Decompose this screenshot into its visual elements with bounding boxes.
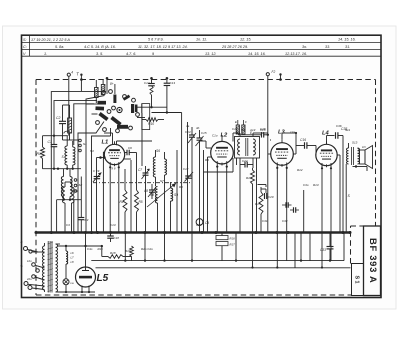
trimmer C19b	[93, 169, 102, 182]
coil S3b secondary	[70, 169, 72, 200]
svg-text:C1o: C1o	[232, 127, 238, 131]
svg-text:R18: R18	[110, 251, 116, 255]
capacitor C28	[238, 132, 269, 138]
output transformer S13	[343, 128, 360, 165]
mains plug 2	[24, 282, 45, 290]
tube V1	[104, 144, 124, 164]
svg-text:S7: S7	[160, 179, 164, 183]
trimmer C8	[144, 184, 156, 199]
svg-text:C3: C3	[85, 218, 89, 222]
labels W2 A13 C28	[241, 128, 266, 132]
wire V3 top	[270, 136, 282, 140]
wire transformer down	[343, 147, 351, 233]
switch wire down	[110, 128, 112, 136]
svg-text:C8: C8	[144, 189, 148, 193]
wire V1 osc links	[124, 153, 137, 181]
capacitor C22	[240, 159, 253, 168]
svg-text:C29: C29	[268, 195, 274, 199]
capacitor C31	[290, 207, 299, 213]
capacitor C1	[48, 136, 58, 169]
resistor R1	[37, 136, 45, 169]
svg-text:E: E	[235, 120, 237, 124]
svg-text:a: a	[21, 240, 23, 244]
svg-text:C22: C22	[242, 159, 248, 163]
wire lower line 1	[91, 259, 344, 261]
svg-text:C18: C18	[114, 236, 120, 240]
svg-text:L7: L7	[71, 256, 75, 260]
svg-text:25 28 27 26 29.: 25 28 27 26 29.	[221, 45, 248, 49]
wire V2 grid	[200, 141, 212, 148]
svg-text:R15: R15	[255, 202, 261, 206]
switch wire up	[114, 84, 116, 94]
wire coil bottoms	[67, 165, 73, 169]
svg-text:14. 15. 16.: 14. 15. 16.	[338, 38, 356, 42]
wire top caps line2	[152, 111, 182, 232]
svg-text:C28: C28	[260, 127, 266, 131]
capacitor C33	[320, 233, 334, 261]
wire T1 top	[233, 133, 268, 142]
svg-text:R12: R12	[297, 168, 303, 172]
mains plug	[21, 240, 45, 253]
resistor R10	[142, 118, 164, 126]
rotary band switch S	[96, 90, 140, 133]
svg-text:F: F	[245, 120, 247, 124]
misc labels top	[186, 124, 342, 134]
svg-text:C3: C3	[66, 223, 70, 227]
wire lower left link	[57, 199, 82, 201]
label L2	[212, 133, 228, 139]
capacitor C3 hatched	[101, 80, 105, 95]
wire corner group	[78, 96, 111, 233]
svg-text:R4: R4	[120, 200, 124, 204]
wire V3 jog	[258, 185, 267, 187]
wire R14 down	[253, 185, 267, 268]
svg-text:5 6 7 8 9.: 5 6 7 8 9.	[148, 38, 164, 42]
wire antenna A down	[68, 80, 70, 136]
wire tube V1 pins down	[110, 167, 119, 232]
ground bus junctions	[35, 231, 352, 234]
coil box	[142, 104, 150, 130]
svg-text:3. 5.: 3. 5.	[96, 52, 103, 56]
wire V3a top link	[282, 132, 297, 146]
power transformer primary	[42, 243, 44, 292]
misc labels bus	[66, 219, 288, 227]
wire V3 grid left	[268, 137, 271, 233]
svg-text:S11: S11	[345, 128, 350, 132]
svg-text:R6: R6	[179, 185, 183, 189]
wire V4 top	[327, 136, 335, 145]
resistor R2 hatched	[68, 105, 72, 140]
capacitor C6	[125, 146, 137, 155]
capacitor C18	[107, 233, 119, 243]
wire below-bus left	[101, 245, 103, 257]
svg-text:R1: R1	[37, 152, 41, 156]
wire tube V1 top right	[117, 141, 153, 145]
svg-text:5. 8a.: 5. 8a.	[55, 45, 64, 49]
wire V4 grid	[315, 146, 317, 156]
table row 3 text	[23, 52, 307, 56]
wire terminal T down	[80, 78, 83, 91]
svg-text:8 8: 8 8	[112, 167, 116, 171]
wire V3 pins	[277, 146, 296, 268]
svg-text:BF 393 A: BF 393 A	[368, 238, 379, 283]
svg-text:8+: 8+	[110, 82, 114, 86]
switch wire left 2	[92, 113, 98, 115]
svg-text:C:: C:	[23, 45, 27, 49]
tube V4	[316, 144, 337, 165]
trimmer C7	[138, 166, 150, 181]
wire switch to left corner 3	[74, 104, 94, 145]
power transformer secondary	[56, 244, 61, 292]
coil S8	[150, 187, 158, 233]
svg-text:12.13-17. 16.: 12.13-17. 16.	[285, 52, 307, 56]
svg-text:C13: C13	[110, 223, 116, 227]
svg-text:33.: 33.	[325, 45, 330, 49]
labels R20 C20	[141, 247, 153, 251]
capacitor C13	[164, 77, 176, 113]
svg-text:12. 15.: 12. 15.	[240, 38, 251, 42]
svg-text:La: La	[71, 281, 75, 285]
wire V1 left pin	[97, 156, 106, 232]
tube V3	[271, 143, 294, 166]
terminal A	[67, 71, 73, 80]
capacitor C16	[296, 138, 316, 149]
svg-text:4.7. 6.: 4.7. 6.	[126, 52, 136, 56]
wire mid verticals	[188, 122, 204, 233]
capacitor C12	[144, 77, 155, 107]
svg-text:C17: C17	[196, 223, 202, 227]
svg-text:12a: 12a	[290, 130, 295, 134]
wire input block bottom	[43, 168, 82, 170]
svg-text:C31: C31	[262, 219, 268, 223]
resistor R4	[120, 190, 128, 233]
svg-text:C33: C33	[320, 248, 326, 252]
svg-text:C36: C36	[336, 124, 342, 128]
resistor R19	[125, 246, 133, 261]
labels C40 R21	[87, 247, 103, 251]
drawing frame	[22, 35, 382, 297]
svg-text:14. 15. 16.: 14. 15. 16.	[248, 52, 266, 56]
svg-text:C6: C6	[128, 146, 132, 150]
svg-text:S9: S9	[174, 193, 178, 197]
coil shield top	[64, 131, 71, 133]
coil S1 primary	[62, 136, 68, 165]
svg-text:~: ~	[20, 264, 23, 270]
svg-text:C3o: C3o	[303, 183, 309, 187]
svg-text:S:: S:	[23, 38, 27, 42]
resistor R5	[135, 180, 143, 233]
svg-text:1o. 11.: 1o. 11.	[196, 38, 207, 42]
svg-text:C16: C16	[300, 138, 306, 142]
wire rectifier bottom	[58, 291, 96, 293]
svg-text:4a: 4a	[186, 124, 190, 128]
svg-text:3o.: 3o.	[302, 45, 307, 49]
wire mid verticals 2	[177, 150, 192, 261]
coil S7	[165, 152, 167, 233]
svg-text:C15: C15	[201, 131, 207, 135]
resistor E hatched	[235, 120, 239, 134]
title box BF 393 A	[364, 226, 381, 296]
svg-text:R19: R19	[125, 249, 131, 253]
resistor R3 hatched	[95, 80, 99, 103]
table row lines	[22, 35, 382, 56]
svg-text:L5: L5	[97, 273, 109, 284]
svg-text:S4: S4	[75, 189, 79, 193]
resistors R16 R17	[212, 233, 235, 261]
resistor R15	[255, 187, 263, 233]
svg-text:C1: C1	[48, 140, 52, 144]
wire right verticals below	[304, 190, 344, 261]
svg-text:R14: R14	[246, 176, 252, 180]
capacitor C30	[282, 202, 292, 208]
coil S6	[153, 149, 160, 186]
capacitor C29	[261, 189, 274, 199]
coil S9	[171, 182, 179, 233]
svg-text:C13: C13	[170, 81, 176, 85]
svg-text:C7: C7	[138, 168, 142, 172]
coil taps 2	[74, 179, 82, 193]
gang dash line	[93, 182, 192, 184]
svg-text:S3: S3	[90, 149, 94, 153]
power transformer core	[47, 241, 52, 293]
switch wire right	[137, 107, 145, 117]
tuning arrow	[147, 183, 176, 207]
svg-text:4b: 4b	[196, 126, 200, 130]
trimmer C17b	[183, 167, 193, 182]
svg-text:R9: R9	[205, 158, 209, 162]
svg-text:12o: 12o	[27, 259, 32, 263]
svg-text:S6: S6	[156, 149, 160, 153]
wire V2 pins	[208, 157, 227, 233]
wire R2 bottom corner	[63, 133, 79, 140]
tube V2	[211, 141, 234, 164]
resistor R14	[246, 168, 255, 187]
IF transformer T1	[235, 131, 260, 158]
wire V2 top	[221, 135, 223, 139]
svg-text:13. 12.: 13. 12.	[205, 52, 216, 56]
svg-text:C4o: C4o	[87, 247, 93, 251]
wire tube V1 top cap	[104, 133, 113, 145]
capacitor C3b	[78, 177, 88, 233]
wire T1 pins down	[237, 158, 257, 233]
svg-text:R5: R5	[139, 200, 143, 204]
chassis dashed outline	[36, 80, 376, 296]
svg-text:R21: R21	[98, 247, 104, 251]
wire osc block	[125, 113, 146, 233]
svg-text:R16: R16	[230, 237, 236, 241]
wire V4 pins	[322, 155, 340, 268]
resistor F hatched	[242, 120, 247, 134]
ground bus	[36, 231, 351, 234]
svg-text:4.C 5. 14. B (A. 16.: 4.C 5. 14. B (A. 16.	[84, 45, 116, 49]
speaker LS	[358, 145, 373, 169]
capacitor C35	[336, 127, 348, 139]
wire AVC line	[204, 158, 234, 172]
resistor R18	[102, 251, 132, 258]
svg-text:31.: 31.	[345, 45, 350, 49]
switch wire left	[86, 103, 98, 105]
coil taps 1	[79, 139, 87, 152]
wire C35 down	[342, 136, 344, 148]
svg-text:L6: L6	[71, 251, 75, 255]
svg-text:R17: R17	[230, 243, 236, 247]
svg-text:C2: C2	[56, 116, 60, 120]
coil S2 secondary	[73, 141, 75, 165]
wire rectifier top	[58, 245, 103, 247]
wire input block top	[43, 135, 68, 137]
svg-text:1.: 1.	[44, 52, 47, 56]
svg-text:C32: C32	[282, 219, 288, 223]
wire switch to left corner 2	[54, 101, 97, 136]
wire F2 down	[267, 76, 269, 137]
svg-text:C12: C12	[144, 81, 150, 85]
wire left col verticals	[57, 200, 74, 233]
svg-text:11. 32. 17. 18. 12 9 17 13. 24: 11. 32. 17. 18. 12 9 17 13. 24.	[138, 45, 188, 49]
svg-text:L8: L8	[71, 260, 75, 264]
svg-text:L1: L1	[102, 139, 109, 145]
terminal T2	[77, 72, 83, 80]
trimmer C14	[185, 127, 196, 145]
svg-text:C 19: C 19	[93, 169, 100, 173]
svg-text:S13: S13	[352, 141, 358, 145]
svg-text:22o: 22o	[26, 277, 32, 281]
wire speaker bottom	[353, 165, 368, 171]
svg-text:R13: R13	[313, 183, 319, 187]
svg-text:S2: S2	[79, 183, 83, 187]
svg-text:R10: R10	[148, 122, 154, 126]
svg-text:S 1: S 1	[354, 275, 360, 283]
wire top caps line1	[142, 104, 167, 113]
padder C9	[196, 219, 209, 233]
svg-text:R2o C2o: R2o C2o	[141, 247, 153, 251]
dial lamp	[63, 279, 74, 292]
wire V1 grid left	[103, 152, 104, 233]
svg-text:4: 4	[71, 71, 73, 75]
svg-text:T: T	[77, 72, 80, 77]
capacitor C2	[56, 105, 70, 133]
svg-text:17 19 20 21, 1 2 22 5 A: 17 19 20 21, 1 2 22 5 A	[31, 38, 70, 42]
trimmer C15	[196, 130, 207, 148]
wire lower line 2	[96, 266, 351, 268]
coil L6 filter	[63, 182, 72, 233]
terminal F2	[266, 70, 282, 81]
rectifier tube V5	[76, 233, 96, 293]
coil L8 filament	[66, 246, 74, 279]
wire switch to left corner 1	[51, 92, 106, 233]
svg-text:F2: F2	[272, 70, 276, 74]
wire switch feed from top	[106, 77, 109, 94]
wire lower verticals	[125, 233, 310, 268]
table row 1 text	[23, 38, 356, 43]
voltage selector	[26, 259, 45, 281]
title box S 1	[352, 264, 364, 296]
coil S2b primary	[61, 169, 63, 200]
misc labels mid	[90, 149, 319, 189]
table row 2 text	[23, 45, 350, 49]
svg-text:C1o: C1o	[212, 134, 218, 138]
coil L7 filter	[72, 182, 79, 233]
